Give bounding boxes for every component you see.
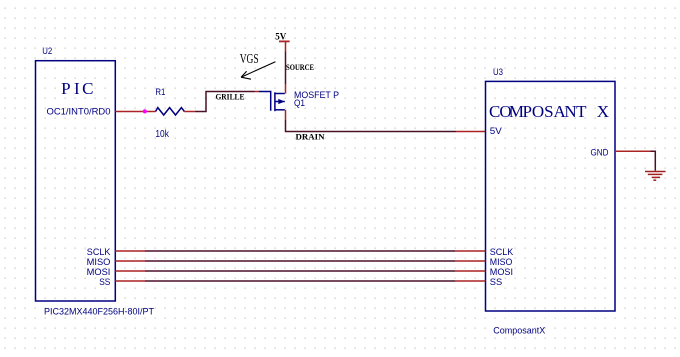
svg-text:PIC32MX440F256H-80I/PT: PIC32MX440F256H-80I/PT — [44, 307, 154, 318]
wire MOSI net — [115, 270, 145, 272]
wire net R1 to gate — [195, 92, 255, 112]
svg-text:10k: 10k — [155, 129, 169, 140]
ground — [645, 172, 666, 181]
wire drain stub — [285, 110, 287, 120]
op-amp U2 PIC box — [36, 61, 116, 301]
transistor Q1 MOSFET P — [259, 92, 285, 112]
VGS arrow — [241, 62, 275, 79]
wire gate stub — [255, 91, 259, 93]
svg-text:DRAIN: DRAIN — [296, 132, 326, 142]
svg-text:5V: 5V — [275, 31, 287, 41]
wire pin OC1 stub + R1 left stub — [115, 111, 155, 113]
wire 5V down to source — [285, 41, 287, 51]
svg-text:U3: U3 — [493, 67, 503, 77]
op-amp U3 COMPOSANT X box — [486, 81, 616, 311]
wire GND net — [651, 151, 656, 170]
svg-text:ComposantX: ComposantX — [493, 326, 545, 336]
svg-text:SS: SS — [490, 277, 502, 288]
svg-text:GND: GND — [591, 147, 609, 157]
svg-text:R1: R1 — [155, 87, 165, 97]
svg-text:PIC: PIC — [61, 79, 93, 98]
svg-text:VGS: VGS — [240, 52, 259, 67]
svg-text:U2: U2 — [42, 46, 52, 56]
wire GND pin stub — [615, 150, 651, 152]
svg-text:SOURCE: SOURCE — [286, 62, 314, 72]
resistor R1 — [156, 108, 185, 115]
wire R1 right stub — [184, 111, 195, 113]
svg-text:SS: SS — [99, 277, 110, 288]
wire 5V pin stub U3 — [456, 131, 486, 133]
wire SCLK net — [115, 250, 145, 252]
wire SS net — [115, 280, 145, 282]
svg-text:GRILLE: GRILLE — [216, 92, 245, 102]
wire MISO net — [115, 260, 145, 262]
svg-text:5V: 5V — [490, 126, 503, 137]
svg-text:OC1/INT0/RD0: OC1/INT0/RD0 — [47, 107, 111, 118]
wire drain net to U3 — [286, 120, 457, 132]
node junction dot — [143, 109, 147, 113]
svg-text:Q1: Q1 — [294, 98, 305, 109]
